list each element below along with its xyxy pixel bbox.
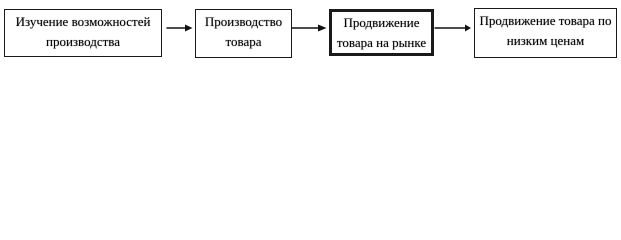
wire / arrow 3 [0,0,621,63]
flowchart box 2: Производство товара [195,9,292,58]
flowchart box 3 (thick border): Продвижение товара на рынке [329,9,434,56]
wire / arrow 2 [0,0,621,63]
flowchart box 1: Изучение возможностей производства [4,9,162,57]
flowchart box 4: Продвижение товара по низким ценам [474,8,617,58]
wire / arrow 1 [0,0,621,63]
